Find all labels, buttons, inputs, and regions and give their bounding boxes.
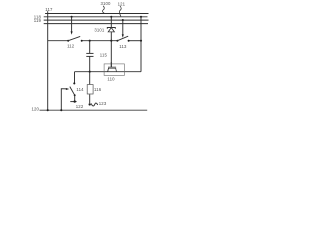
resistor 116 body [87,85,93,94]
svg-text:116: 116 [94,87,102,92]
wire vertical line 117 [47,11,49,110]
node junction dot capacitor at crystal wire [89,71,91,73]
crystal 110 inner electrode bridge right leg [115,68,118,72]
wire switch row horizontal line [48,40,68,42]
wire control arrow for switch 113 [122,20,124,35]
wire left drop to switch 114 [74,72,76,84]
node junction dot on L2 at diode branch [110,16,112,18]
wire resistor branch lower [89,94,91,103]
wire right vertical from L2 down to crystal wire [140,17,142,72]
wire crystal row horizontal [75,71,142,73]
switch 114 pivot dot [74,94,76,96]
crystal 110 package outline [104,64,124,76]
svg-text:120: 120 [31,106,39,111]
node junction dot on L2 at right vertical [140,16,142,18]
capacitor 115 plates [86,52,93,54]
wire control arrow for switch 112 [71,17,73,32]
svg-text:113: 113 [119,44,127,49]
wire capacitor upper lead [89,41,91,54]
svg-text:112: 112 [67,44,75,49]
node junction dot right vertical at switch row [140,40,142,42]
svg-text:3101: 3101 [94,28,105,33]
wire crystal top lead [110,62,112,67]
svg-text:123: 123 [99,101,107,106]
svg-text:122: 122 [76,104,84,109]
wire diode branch vertical upper [110,17,112,28]
switch 112 lever and contacts [67,40,69,42]
svg-text:119: 119 [34,18,42,23]
crystal 110 electrode bar double line [108,66,116,68]
svg-text:3100: 3100 [100,1,111,6]
wire switch 114 lower lead [74,95,76,101]
wire squiggle leader for label 121 [119,6,121,16]
svg-text:114: 114 [76,87,84,92]
node 122 dot [74,100,76,102]
switch 114 top contact dot [73,82,75,84]
wire control leader for switch 114 from bus 120 [61,89,66,111]
node terminal 123 dot [89,103,91,105]
node junction dot on L2 for switch 112 control [71,16,73,18]
svg-text:117: 117 [45,7,53,12]
wire diode branch vertical lower [110,32,112,67]
node junction dot leader at bus 120 [60,109,62,111]
svg-text:110: 110 [107,77,115,82]
svg-text:115: 115 [100,53,108,58]
wire squiggle leader to label 123 [91,103,97,106]
node junction dot diode branch at switch row [110,40,112,42]
wire L3 bus line 119 [44,19,149,21]
wire L4 bus line [44,23,148,25]
switch 113 lever and contacts [116,40,118,42]
crystal 110 inner electrode bridge left leg [108,68,109,72]
wire L2 bus line 118 [44,16,148,18]
node 122 stub [70,101,76,103]
switch 114 lever [70,87,75,96]
wire squiggle leader for label 3100 [102,6,104,14]
node junction dot capacitor branch at switch row [89,40,91,42]
wire capacitor lower lead [89,56,91,71]
wire resistor branch upper [89,72,91,85]
node junction dot line117 at bus 120 [47,109,49,111]
wire L1 top bus line [45,13,148,15]
diode 3101 triangle anode [108,28,114,32]
node junction dot on L3 for switch 113 control [122,19,124,21]
svg-text:121: 121 [118,1,126,6]
wire bottom bus line 120 [40,109,148,111]
diode 3101 zener cathode bar [107,28,115,29]
